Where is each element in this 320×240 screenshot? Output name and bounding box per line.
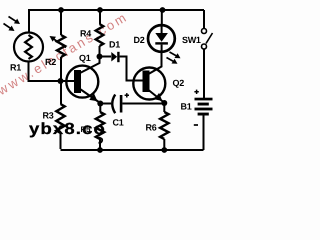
- wire top rail: [29, 9, 204, 11]
- wire R4 drop: [99, 10, 101, 24]
- svg-text:R5: R5: [81, 125, 91, 134]
- node dot top rail D2: [160, 7, 166, 13]
- wire R3 bottom: [60, 133, 62, 149]
- node dot top rail R4: [97, 7, 103, 13]
- resistor R3: [56, 104, 64, 133]
- wire R4 to node: [99, 46, 101, 57]
- node dot bottom R5: [97, 147, 103, 153]
- svg-text:R3: R3: [43, 111, 54, 121]
- capacitor C1: [100, 93, 164, 113]
- svg-text:D1: D1: [109, 40, 120, 50]
- battery B1: [194, 90, 213, 150]
- svg-text:Q1: Q1: [79, 53, 91, 63]
- resistor R2 (variable): [57, 35, 65, 57]
- diode D1: [100, 52, 143, 81]
- resistor R5: [99, 104, 101, 113]
- node base Q1: [58, 78, 64, 84]
- wire Q1 base: [61, 80, 75, 82]
- transistor Q2: [133, 52, 165, 103]
- node emitter Q1: [97, 101, 103, 107]
- wire R1 bottom to node: [29, 62, 62, 82]
- node dot top rail R2: [58, 7, 64, 13]
- svg-text:R6: R6: [146, 123, 157, 133]
- svg-text:ybx8.co: ybx8.co: [29, 121, 106, 138]
- node collector Q1: [97, 54, 103, 60]
- svg-text:C1: C1: [113, 118, 124, 128]
- resistor R4: [96, 24, 104, 46]
- transistor Q1: [66, 57, 99, 103]
- switch SW1: [202, 10, 213, 98]
- LED D2: [148, 25, 181, 64]
- wire R2 to node: [60, 57, 62, 104]
- svg-text:SW1: SW1: [182, 35, 201, 45]
- svg-text:R4: R4: [80, 29, 91, 39]
- svg-text:R1: R1: [10, 63, 21, 73]
- svg-text:D2: D2: [134, 35, 145, 45]
- node emitter Q2: [161, 100, 167, 106]
- wire R1 top drop: [28, 9, 30, 33]
- wire bottom rail: [61, 149, 204, 151]
- node dot bottom R6: [161, 147, 167, 153]
- svg-text:Q2: Q2: [173, 78, 185, 88]
- svg-text:R2: R2: [45, 57, 56, 67]
- wire R2 drop: [60, 10, 62, 35]
- photoresistor R1: [14, 33, 43, 62]
- svg-text:B1: B1: [181, 102, 192, 112]
- resistor R6: [163, 103, 165, 112]
- wire D2 drop: [161, 10, 163, 26]
